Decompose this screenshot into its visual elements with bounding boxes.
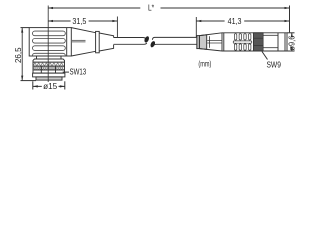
dim 26,5 line <box>21 28 23 81</box>
centerline axis of M12 socket <box>47 6 49 83</box>
body divider line <box>66 28 68 56</box>
cable break mark left <box>143 36 149 44</box>
grip center capsule <box>233 41 252 43</box>
grip pills top row <box>234 34 236 40</box>
neck <box>37 56 62 59</box>
grip slot 3 <box>33 46 66 51</box>
arrow L* right <box>285 7 290 9</box>
dim o9,6 extension bottom <box>287 50 295 52</box>
svg-text:ø9,6: ø9,6 <box>287 35 296 51</box>
svg-text:31,5: 31,5 <box>72 17 86 26</box>
cable right segment <box>152 37 197 45</box>
hex nut SW9 <box>262 33 264 51</box>
flange <box>33 73 65 77</box>
M8 plug body <box>222 33 287 51</box>
svg-text:26,5: 26,5 <box>14 47 23 63</box>
M8 bend relief cone <box>200 33 223 51</box>
arrow 26,5 top <box>21 28 23 33</box>
dim 31,5 extension right <box>116 17 118 38</box>
taper parting lines <box>72 39 86 41</box>
dim o15 line <box>33 85 65 87</box>
leader SW13 <box>63 71 69 73</box>
svg-text:SW9: SW9 <box>267 61 282 70</box>
arrow 31,5 left <box>48 20 53 22</box>
M8 gland gray segment <box>200 35 207 50</box>
dim 26,5 top extension <box>21 27 30 29</box>
dim 26,5 bottom extension <box>21 80 37 82</box>
arrow L* left <box>48 7 53 9</box>
socket face ring <box>36 77 62 80</box>
grip slot 1 <box>33 31 66 36</box>
svg-text:L*: L* <box>148 3 154 12</box>
cone inner cable lines <box>207 39 221 41</box>
grip slot 4 <box>33 53 66 56</box>
grip pills bottom row <box>234 44 236 50</box>
inner ferrule line <box>208 36 210 48</box>
arrow o15 right <box>60 85 65 87</box>
M8 thread tip face <box>284 33 286 51</box>
bend relief boot <box>99 33 113 51</box>
svg-text:ø15: ø15 <box>43 82 58 91</box>
dim o15 extension right <box>64 81 66 89</box>
arrow 31,5 right <box>112 20 117 22</box>
hex nut SW13 flats band <box>33 70 65 73</box>
svg-text:41,3: 41,3 <box>228 17 242 26</box>
svg-text:(mm): (mm) <box>198 60 211 69</box>
dimension lines <box>21 6 295 90</box>
dim o9,6 line <box>291 33 293 51</box>
leader SW9 <box>262 52 268 60</box>
coupling nut top ring <box>33 59 65 62</box>
dim 41,3 line <box>196 20 289 22</box>
knurl diamond band <box>33 66 65 70</box>
cable break mark right <box>150 40 156 48</box>
knurl scallop band <box>33 62 65 66</box>
left connector body (angled M12 housing) <box>29 28 71 56</box>
arrow 41,3 right <box>285 20 290 22</box>
dim o15 extension left <box>32 81 34 89</box>
dim 41,3 extension left <box>195 17 197 37</box>
dim 31,5 line <box>48 20 117 22</box>
ferrule ring <box>96 31 100 52</box>
arrow 26,5 bottom <box>21 76 23 81</box>
arrow o9,6 top <box>291 33 293 38</box>
arrow o9,6 bottom <box>291 47 293 52</box>
cable left segment <box>114 38 147 45</box>
svg-text:SW13: SW13 <box>70 67 87 76</box>
knurled ring dark band <box>254 33 264 51</box>
M8 strain relief step <box>197 36 200 49</box>
taper to cable entry <box>71 28 95 56</box>
dim L* line <box>48 7 290 9</box>
grip slot 2 <box>33 39 66 44</box>
arrowheads <box>21 7 293 88</box>
dim o9,6 extension top <box>287 32 295 34</box>
shared right extension line <box>289 6 291 33</box>
arrow 41,3 left <box>196 20 201 22</box>
arrow o15 left <box>33 85 38 87</box>
